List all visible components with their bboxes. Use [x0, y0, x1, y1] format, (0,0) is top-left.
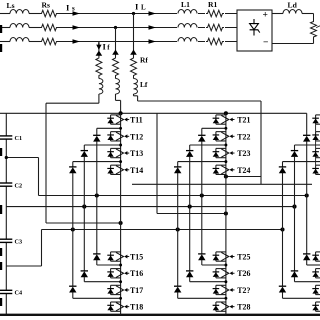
- svg-text:Ls: Ls: [7, 1, 15, 10]
- clamp diode D22 lower: [186, 271, 193, 277]
- transistor T38 partial: [312, 302, 320, 311]
- current arrow Is phase b: [73, 25, 81, 30]
- transistor T16: [107, 269, 143, 279]
- node clamp junction upper 1 leg 2: [224, 127, 227, 130]
- wire ac link to leg 2: [157, 113, 226, 213]
- wire Ld to load resistor: [302, 13, 314, 15]
- node leg 1 top: [119, 111, 123, 115]
- inductor Lf branch c: [134, 79, 138, 94]
- svg-text:−: −: [263, 38, 268, 48]
- transistor T34 partial: [312, 165, 320, 174]
- node n3 junction leg 3: [280, 227, 284, 231]
- wire clamp link lower 2 leg 3: [295, 277, 320, 282]
- wire clamp link upper 1 leg 1: [97, 128, 121, 135]
- inductor Ls phase c: [10, 38, 29, 42]
- node clamp junction lower 3 leg 1: [119, 297, 122, 300]
- svg-text:T13: T13: [130, 149, 143, 158]
- wire n1 tap rail: [6, 158, 306, 196]
- wire clamp link lower 2 leg 2: [190, 277, 226, 282]
- inductor L1 phase b: [177, 24, 198, 29]
- current arrow IL phase b: [149, 25, 157, 30]
- svg-text:C4: C4: [15, 290, 23, 297]
- current arrow up branch b: [112, 50, 119, 55]
- wire clamp link upper 3 leg 2: [178, 162, 226, 167]
- resistor Rf branch b: [113, 57, 119, 78]
- wire clamp link lower 2 leg 1: [84, 277, 120, 282]
- inductor Ls phase b: [10, 24, 29, 28]
- transistor T21: [213, 115, 251, 125]
- current arrow IL phase c: [149, 39, 157, 44]
- inductor Ls phase a: [10, 10, 29, 14]
- node ac leg 2: [224, 211, 228, 215]
- node leg 2 top: [224, 111, 228, 115]
- diode bridge rectifier box: [237, 10, 272, 51]
- transistor T33 partial: [312, 148, 320, 157]
- transistor T23: [213, 148, 251, 158]
- transistor T32 partial: [312, 132, 320, 141]
- wire clamp link upper 2 leg 3: [295, 145, 320, 151]
- svg-text:Ld: Ld: [288, 1, 298, 10]
- wire branch a to ac node of leg 1: [46, 94, 121, 223]
- resistor Rs phase a: [40, 10, 58, 16]
- wire filter branch c vertical: [133, 14, 135, 57]
- inductor Ld: [283, 9, 302, 13]
- capacitor C2: [0, 183, 12, 186]
- clamp diode D13 upper: [69, 167, 76, 173]
- wire ac stub from leg 2: [226, 176, 261, 178]
- resistor Rf branch c: [131, 57, 137, 78]
- transistor T35 partial: [312, 252, 320, 261]
- clamp diode D22 upper: [186, 151, 193, 157]
- node n2 junction leg 3: [292, 205, 296, 209]
- node n1 junction leg 1: [95, 193, 99, 197]
- wire leg 1 vertical: [120, 113, 122, 314]
- transistor T26: [213, 269, 251, 279]
- load resistor Rd: [311, 20, 317, 39]
- wire filter branch b vertical: [115, 28, 117, 57]
- svg-text:+: +: [263, 11, 268, 21]
- resistor Rf branch a: [96, 57, 102, 78]
- clamp diode D23 upper: [174, 167, 181, 173]
- node clamp junction lower 1 leg 1: [119, 264, 122, 267]
- svg-text:T14: T14: [130, 166, 143, 175]
- node clamp junction lower 2 leg 2: [224, 280, 227, 283]
- resistor R1 phase c: [205, 37, 225, 46]
- wire leg 3 edge stubs: [315, 124, 317, 174]
- wire clamp link lower 3 leg 1: [73, 292, 121, 298]
- svg-text:L: L: [141, 4, 146, 12]
- clamp diode D31 upper: [303, 135, 310, 141]
- wire clamp column leg 3 col 2: [294, 157, 296, 271]
- clamp diode D32 upper: [291, 151, 298, 157]
- svg-text:T2?: T2?: [237, 286, 250, 295]
- node clamp junction upper 2 leg 1: [119, 144, 122, 147]
- transistor T36 partial: [312, 269, 320, 278]
- clamp diode D13 lower: [69, 286, 76, 292]
- node clamp junction upper 2 leg 2: [224, 144, 227, 147]
- capacitor C3: [0, 239, 12, 242]
- bridge diode symbol: [250, 19, 260, 36]
- wire top dc rail: [0, 112, 307, 114]
- svg-text:T18: T18: [130, 303, 143, 312]
- inductor Lf branch a: [99, 79, 103, 94]
- svg-text:T23: T23: [237, 149, 250, 158]
- clamp diode D11 upper: [93, 135, 100, 141]
- svg-text:C2: C2: [15, 182, 23, 189]
- wire clamp column leg 2 col 3: [177, 173, 179, 286]
- wire filter branch a vertical: [98, 42, 100, 57]
- clamp diode D11 lower: [93, 254, 100, 260]
- wire clamp column leg 1 col 1: [96, 141, 98, 254]
- wire clamp link upper 2 leg 1: [84, 145, 120, 151]
- wire capacitor bus segments: [5, 113, 7, 314]
- wire n2 tap rail: [6, 206, 294, 208]
- svg-text:T22: T22: [237, 132, 250, 141]
- svg-text:T25: T25: [237, 253, 250, 262]
- svg-text:R1: R1: [208, 0, 217, 9]
- svg-text:Lf: Lf: [140, 80, 148, 89]
- clamp diode D23 lower: [174, 286, 181, 292]
- wire clamp link lower 3 leg 2: [178, 292, 226, 298]
- svg-text:T24: T24: [237, 166, 250, 175]
- wire branch b between Rf and Lf: [115, 77, 117, 79]
- capacitor C4: [0, 290, 12, 293]
- clamp diode D33 upper: [279, 167, 286, 173]
- clamp diode D21 lower: [198, 254, 205, 260]
- clamp diode D12 upper: [81, 151, 88, 157]
- svg-text:L1: L1: [181, 0, 190, 9]
- inductor L1 phase a: [177, 10, 198, 15]
- wire clamp link lower 1 leg 3: [307, 260, 320, 265]
- resistor Rs phase b: [40, 24, 58, 30]
- svg-text:T11: T11: [130, 116, 143, 125]
- wire phase c source segment: [0, 41, 237, 43]
- current arrow Is phase a: [73, 11, 81, 16]
- svg-text:T21: T21: [237, 116, 250, 125]
- node clamp junction lower 2 leg 1: [119, 280, 122, 283]
- node n3 junction leg 1: [71, 227, 75, 231]
- node branch b tap on phase b: [114, 26, 117, 29]
- node ac stub at leg 2: [224, 174, 228, 178]
- transistor T22: [213, 132, 251, 142]
- wire leg 2 vertical: [225, 113, 227, 314]
- transistor T24: [213, 165, 251, 175]
- clamp diode D33 lower: [279, 286, 286, 292]
- current arrow up branch a: [96, 51, 103, 56]
- wire branch c between Rf and Lf: [133, 77, 135, 79]
- node n2 junction leg 2: [188, 205, 192, 209]
- current arrow up branch c: [130, 50, 137, 55]
- node n1 junction leg 3: [305, 193, 309, 197]
- wire clamp link upper 2 leg 2: [190, 145, 226, 151]
- svg-text:T16: T16: [130, 269, 143, 278]
- load resistor arrow tick: [316, 26, 320, 28]
- resistor R1 phase b: [205, 23, 225, 32]
- node n1 junction leg 2: [200, 193, 204, 197]
- transistor T14: [107, 165, 143, 175]
- wire clamp link upper 3 leg 3: [283, 162, 320, 167]
- wire branch b to top rail junction: [116, 94, 121, 113]
- clamp diode D21 upper: [198, 135, 205, 141]
- wire leg 3 top rail drop: [306, 113, 308, 135]
- wire clamp column leg 3 col 1: [306, 141, 308, 254]
- transistor T17: [107, 285, 143, 295]
- clamp diode D32 lower: [291, 271, 298, 277]
- inductor Lf branch b: [116, 79, 120, 94]
- wire bottom dc rail: [0, 314, 320, 316]
- wire clamp link lower 3 leg 3: [283, 292, 320, 298]
- current arrow Is phase c: [73, 39, 81, 44]
- clamp diode D12 lower: [81, 271, 88, 277]
- transistor T13: [107, 148, 143, 158]
- svg-text:Rf: Rf: [140, 56, 148, 65]
- wire clamp column leg 1 col 2: [83, 157, 85, 271]
- transistor T15: [107, 252, 143, 262]
- resistor Rs phase c: [40, 38, 58, 44]
- svg-text:T15: T15: [130, 253, 143, 262]
- wire clamp column leg 2 col 2: [189, 157, 191, 271]
- transistor T11: [107, 115, 142, 125]
- transistor T12: [107, 132, 143, 142]
- current arrow If on branch a: [98, 43, 100, 50]
- transistor T28: [213, 302, 251, 312]
- wire ac line toward leg 3: [132, 183, 312, 185]
- svg-text:T26: T26: [237, 269, 250, 278]
- transistor T31 partial: [312, 115, 320, 124]
- svg-text:Rs: Rs: [42, 1, 50, 10]
- wire branch a between Rf and Lf: [98, 77, 100, 79]
- node clamp junction lower 1 leg 2: [224, 264, 227, 267]
- wire clamp column leg 1 col 3: [72, 173, 74, 286]
- inductor L1 phase c: [177, 38, 198, 43]
- svg-text:T28: T28: [237, 303, 250, 312]
- svg-text:C1: C1: [15, 135, 23, 142]
- wire clamp link upper 3 leg 1: [73, 162, 121, 167]
- transistor T37 partial: [312, 285, 320, 294]
- wire clamp link lower 1 leg 1: [97, 260, 121, 265]
- wire phase b source segment: [0, 27, 237, 29]
- clamp diode D31 lower: [303, 254, 310, 260]
- wire clamp link lower 1 leg 2: [202, 260, 226, 265]
- node n1 bus tap: [5, 156, 8, 159]
- transistor T18: [107, 302, 143, 312]
- node ac leg 1: [119, 221, 123, 225]
- svg-text:s: s: [72, 5, 75, 13]
- wire branch c to ac line of leg 3: [134, 94, 262, 184]
- capacitor C1: [0, 136, 12, 139]
- wire bridge output top: [272, 13, 283, 15]
- current arrow IL phase a: [149, 11, 157, 16]
- node clamp junction upper 3 leg 1: [119, 160, 122, 163]
- node clamp junction upper 1 leg 1: [119, 127, 122, 130]
- wire clamp column leg 2 col 1: [201, 141, 203, 254]
- resistor R1 phase a: [205, 9, 225, 18]
- wire n3 tap rail: [6, 230, 282, 267]
- node clamp junction lower 3 leg 2: [224, 297, 227, 300]
- svg-text:C3: C3: [15, 239, 23, 246]
- node n3 junction leg 2: [176, 227, 180, 231]
- node branch c tap on phase a: [132, 12, 135, 15]
- transistor T25: [213, 252, 251, 262]
- svg-text:T17: T17: [130, 286, 143, 295]
- wire load return to bridge minus: [313, 39, 315, 44]
- wire clamp link upper 1 leg 2: [202, 128, 226, 135]
- svg-text:T12: T12: [130, 132, 143, 141]
- transistor T27: [213, 285, 251, 295]
- wire clamp column leg 3 col 3: [282, 173, 284, 286]
- wire phase a source segment: [0, 13, 237, 15]
- left margin marks: [0, 25, 2, 306]
- node n2 junction leg 1: [82, 205, 86, 209]
- node clamp junction upper 3 leg 2: [224, 160, 227, 163]
